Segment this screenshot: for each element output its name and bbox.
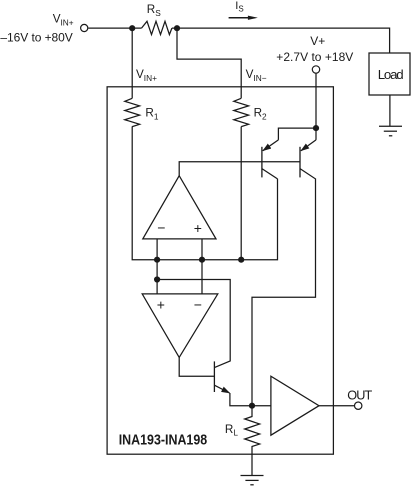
resistor R1 [125, 98, 140, 126]
svg-text:+: + [194, 220, 202, 236]
wire VIN+ branch down to R1 [131, 28, 133, 98]
wire input node line to Q1 collector [157, 179, 277, 260]
svg-text:RL: RL [225, 423, 238, 438]
wire A2 output to Q3 base [179, 357, 214, 376]
transistor Q3 emitter arrow [214, 385, 229, 393]
ground under load [379, 126, 402, 136]
node B junction under RS right [174, 25, 180, 31]
node junction mirror emitters [313, 125, 319, 131]
ground under RL [241, 476, 264, 485]
transistor Q3 base bar [213, 361, 215, 392]
wire buffer output to OUT [319, 405, 354, 407]
wire feedback to Q3 collector [157, 280, 230, 368]
svg-text:RS: RS [147, 3, 161, 18]
wire A1 noninverting input stub [201, 239, 203, 294]
resistor RL [245, 406, 260, 476]
transistor Q2 emitter arrow [301, 140, 316, 151]
wire top rail VIN+ to RS [88, 27, 141, 29]
transistor Q1 emitter arrow [263, 140, 279, 151]
IC box INA193-INA198 outline [107, 87, 333, 454]
svg-text:+2.7V to +18V: +2.7V to +18V [276, 50, 353, 64]
terminal V+ [312, 66, 319, 73]
wire R2 to input node line [240, 127, 242, 260]
svg-text:−: − [194, 297, 202, 313]
current arrow IS [229, 16, 258, 20]
svg-text:Load: Load [378, 67, 404, 82]
wire Q3 emitter to output node [230, 393, 271, 406]
transistor Q2 emitter wire [315, 128, 317, 140]
terminal OUT [355, 402, 362, 409]
wire load to ground [389, 95, 391, 126]
transistor Q1 emitter wire [278, 128, 316, 140]
op-amp A2 [142, 294, 218, 358]
svg-text:VIN+: VIN+ [53, 13, 74, 28]
svg-text:VIN−: VIN− [246, 68, 267, 83]
svg-text:R1: R1 [145, 107, 158, 122]
node junction minus input [154, 257, 160, 263]
resistor R2 [234, 98, 249, 126]
op-amp A3 output buffer [271, 376, 319, 435]
svg-text:OUT: OUT [347, 388, 372, 402]
wire RS to load [172, 28, 390, 53]
wire R1 to input node line [132, 126, 157, 259]
svg-text:INA193-INA198: INA193-INA198 [119, 433, 208, 449]
node junction plus input [199, 257, 205, 263]
transistor Q2 collector [252, 169, 316, 406]
node junction R2 tap [238, 257, 244, 263]
svg-text:VIN+: VIN+ [136, 68, 157, 83]
op-amp A1 [143, 176, 216, 239]
svg-text:V+: V+ [310, 34, 325, 48]
load box [369, 53, 410, 95]
wire V+ down to mirror emitters [315, 73, 317, 128]
svg-text:−: − [157, 220, 165, 236]
transistor Q1 base bar [261, 147, 263, 178]
resistor RS [142, 21, 172, 34]
node junction output [249, 403, 255, 409]
node A junction under RS left [129, 25, 135, 31]
wire VIN- branch from node B [177, 28, 241, 98]
svg-text:R2: R2 [254, 107, 267, 122]
node junction feedback [154, 276, 160, 282]
wire A1 inverting input stub [156, 239, 158, 294]
svg-text:IS: IS [235, 0, 243, 13]
svg-text:+: + [157, 297, 165, 313]
wire A1 output to mirror bases [179, 162, 300, 176]
terminal VIN+ [81, 24, 88, 31]
svg-text:–16V to +80V: –16V to +80V [0, 31, 72, 45]
transistor Q2 base bar [299, 147, 301, 178]
transistor Q1 collector [262, 169, 278, 179]
